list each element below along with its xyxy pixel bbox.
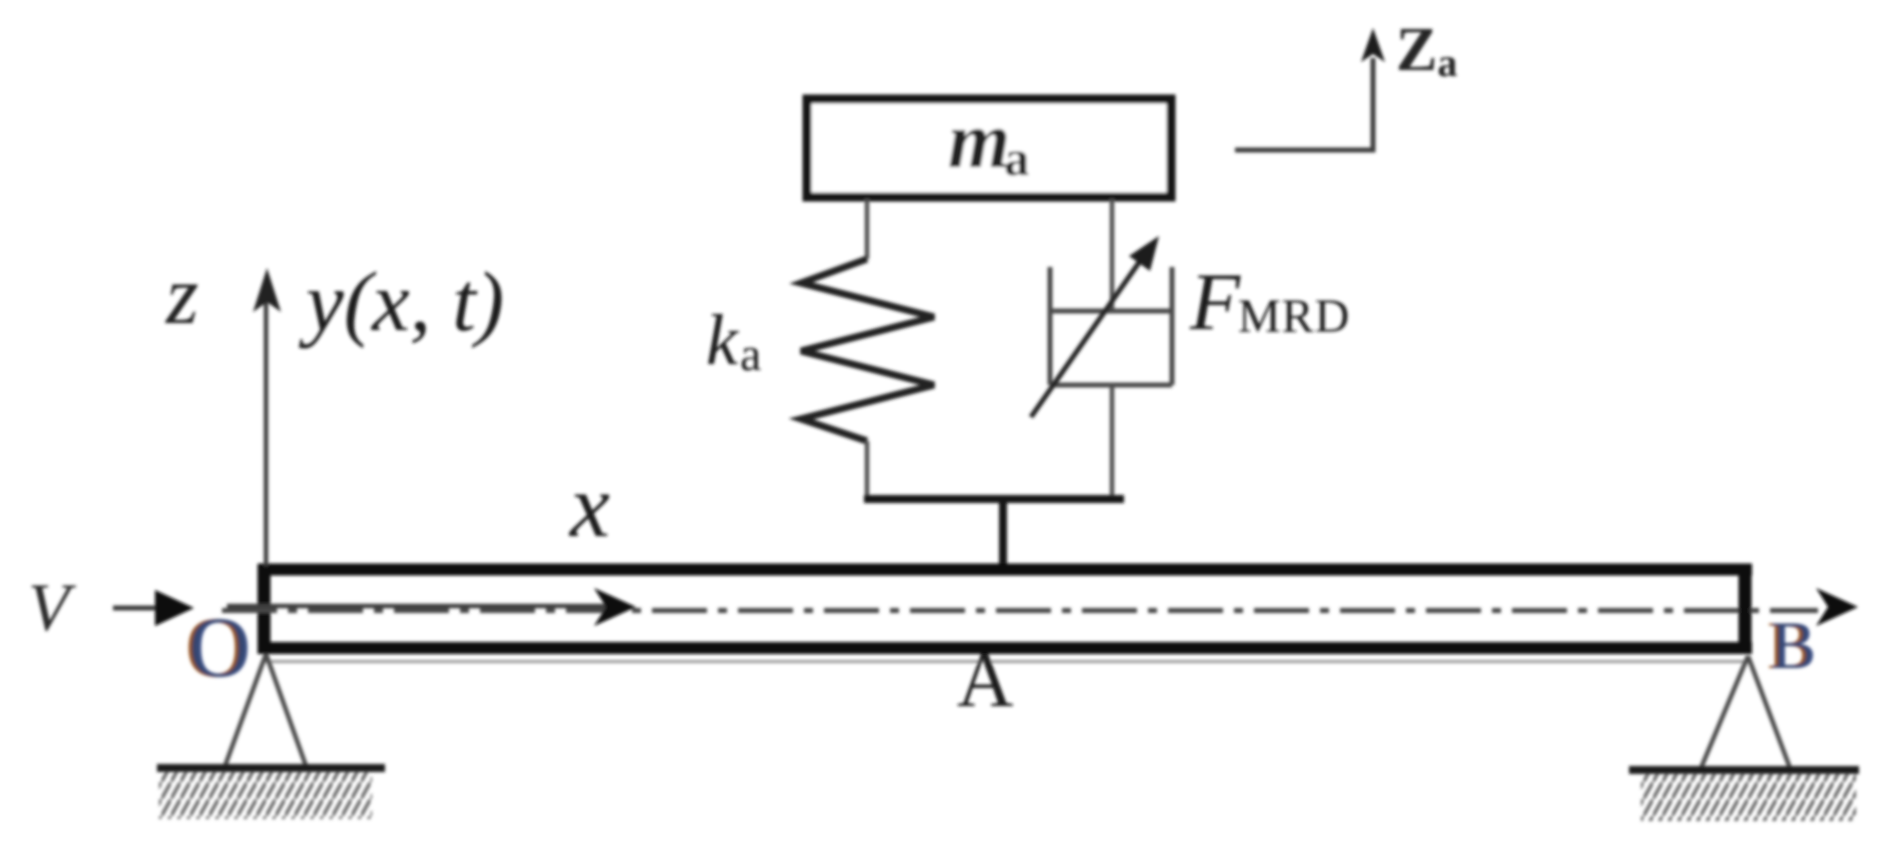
svg-text:V: V: [28, 569, 77, 645]
svg-text:A: A: [957, 636, 1013, 723]
svg-text:F: F: [1189, 256, 1241, 347]
svg-text:y(x, t): y(x, t): [298, 255, 504, 349]
svg-text:MRD: MRD: [1238, 290, 1350, 343]
svg-text:O: O: [187, 599, 249, 695]
svg-text:Za: Za: [1396, 16, 1457, 85]
svg-text:x: x: [568, 457, 610, 556]
svg-text:B: B: [1769, 607, 1814, 683]
svg-text:ka: ka: [706, 300, 761, 381]
svg-text:z: z: [165, 249, 199, 342]
